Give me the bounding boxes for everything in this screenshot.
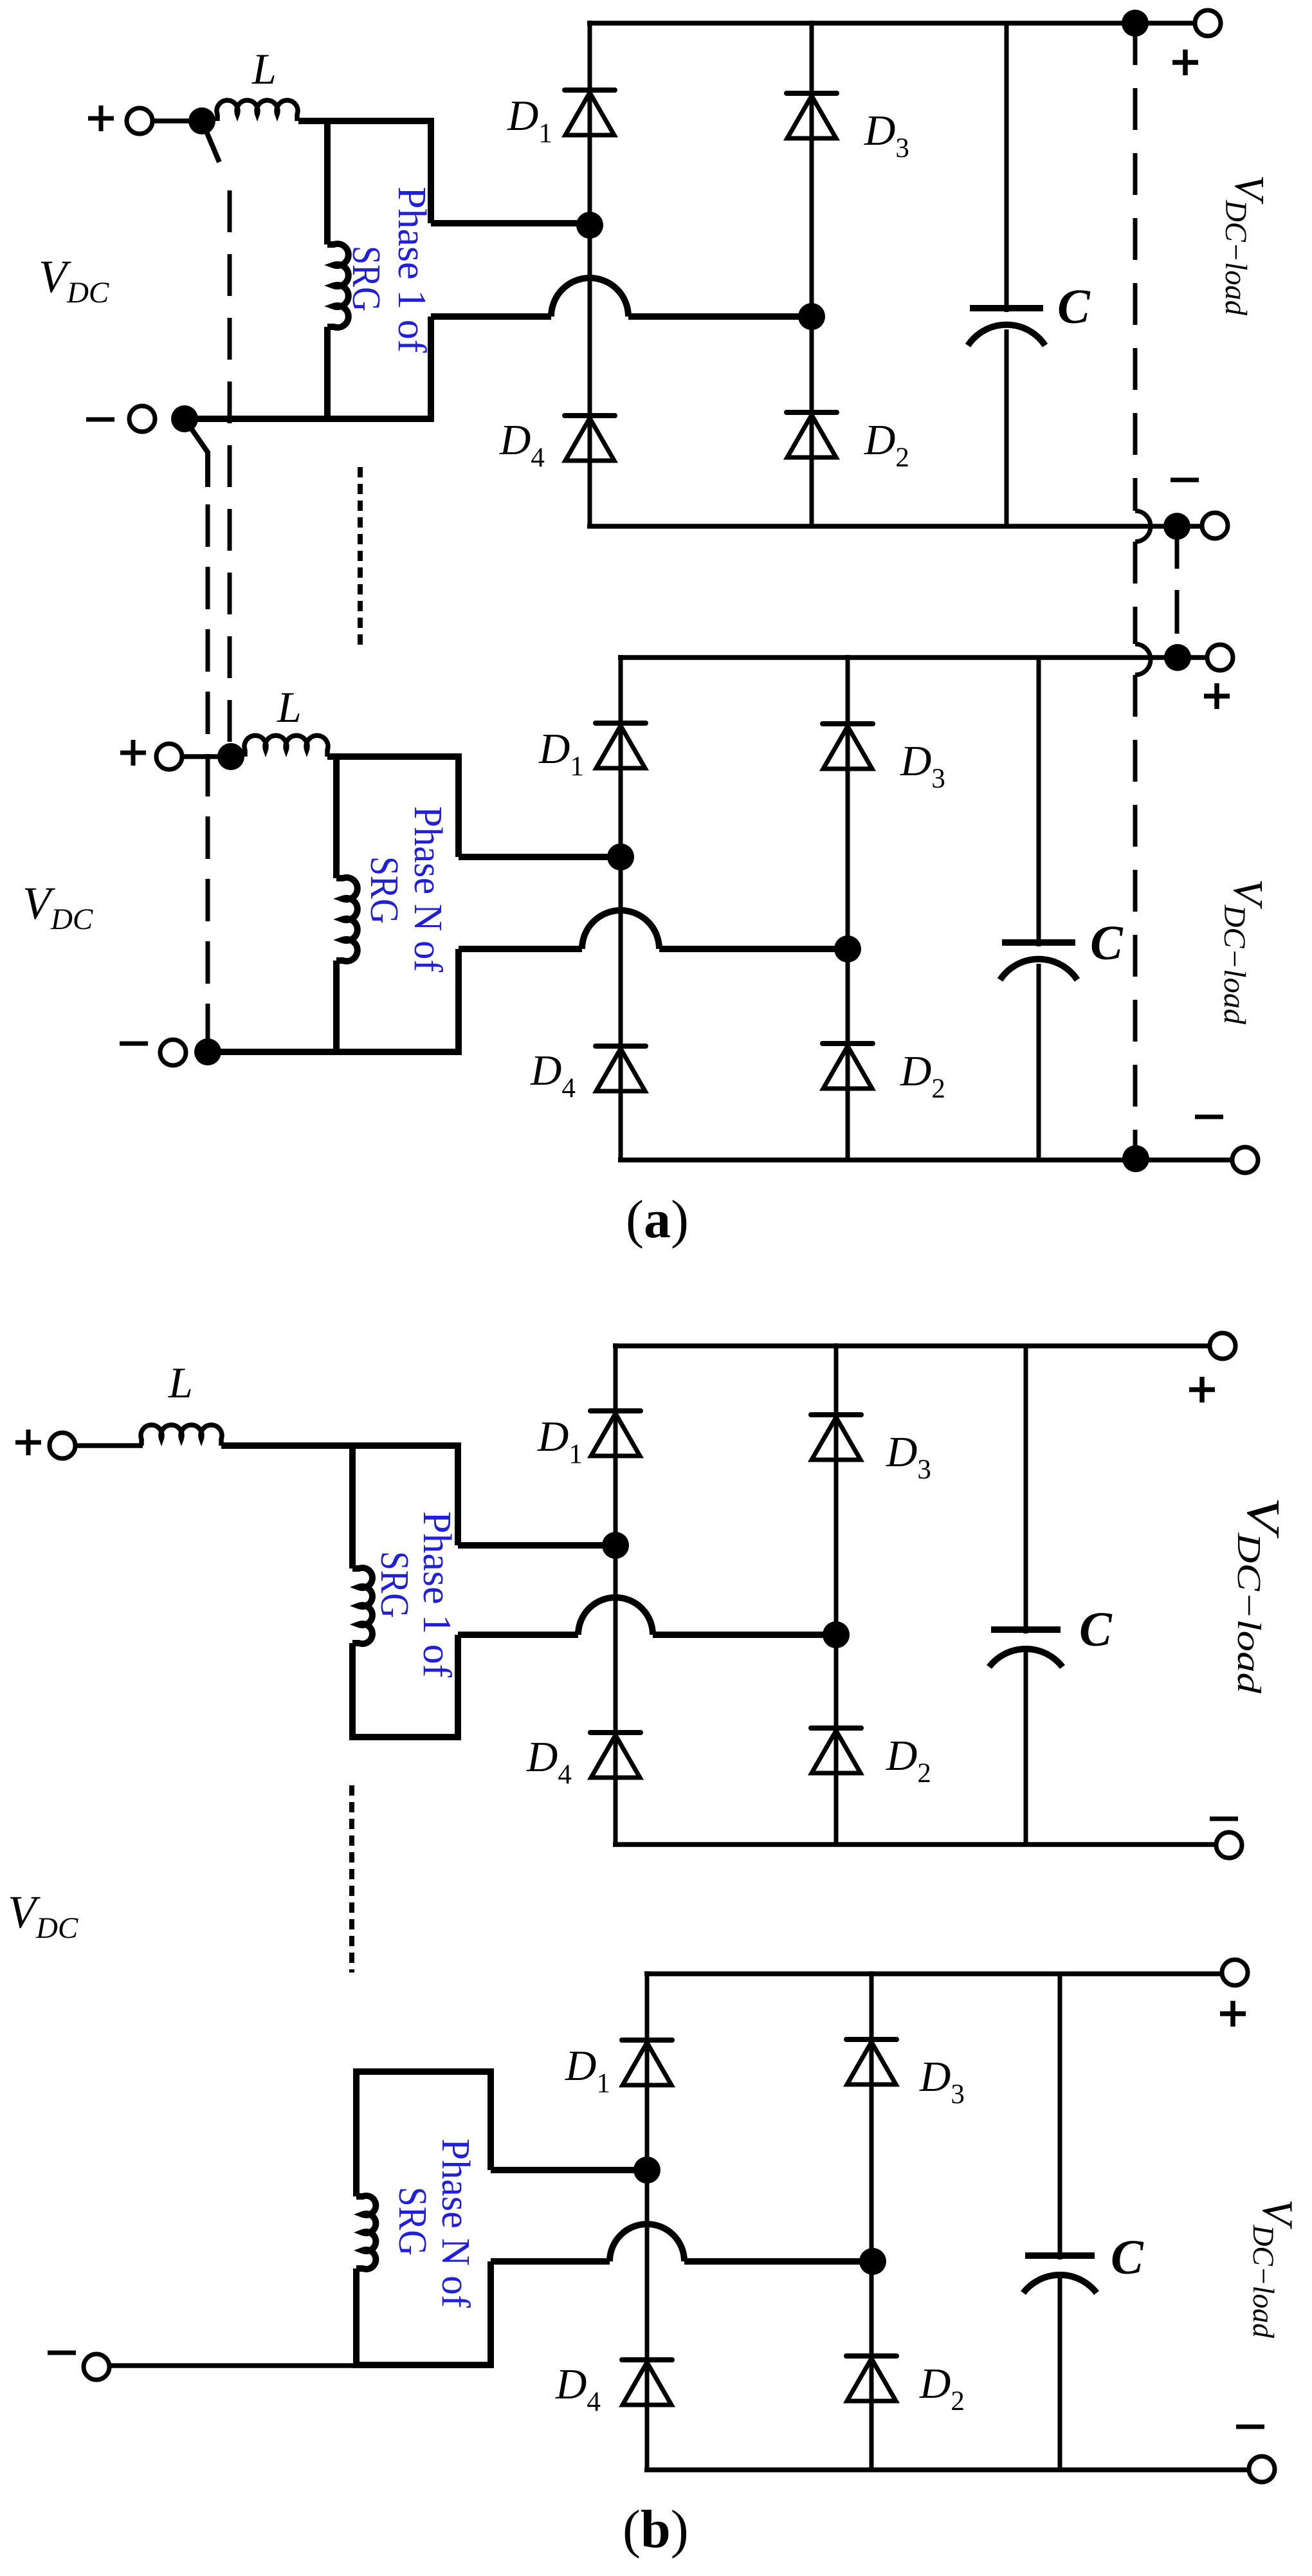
right side upper of block (fig b phaseN): [487, 2068, 494, 2170]
svg-text:D1: D1: [507, 92, 552, 149]
node + input phase 1 (fig a): [188, 107, 215, 134]
plus sign output (fig a phase1): [1172, 50, 1198, 75]
diode D2 (fig b phase1): [811, 1725, 861, 1731]
wire left side lower (fig a phase1): [324, 327, 331, 422]
diode D1 (fig b phase1): [590, 1408, 641, 1413]
lead 2 right part (fig b phase1): [653, 1632, 836, 1638]
lead 2 right part (fig a phaseN): [659, 946, 848, 952]
minus sign output (fig a phaseN): [1195, 1115, 1223, 1119]
plus sign output (fig b phase1): [1189, 1377, 1215, 1403]
dashed wire V_DC- to phase N (fig a): [206, 501, 210, 1046]
terminal + V_DC phase N (fig a): [156, 744, 182, 769]
bridge right leg (fig b phaseN): [870, 1971, 874, 2470]
dashed load wire - to phase N + (fig a): [1175, 538, 1180, 634]
wire hop over bridge left leg (fig a phase1): [551, 278, 628, 317]
output - terminal (fig b phase1): [1216, 1832, 1242, 1858]
junction node lead1/bridge left leg (fig a phase1): [576, 212, 603, 239]
output + node (fig a phase1): [1122, 10, 1149, 37]
bridge right leg (fig b phase1): [834, 1343, 839, 1845]
bottom wire of block to - node (fig a phaseN): [208, 1049, 462, 1055]
svg-text:D3: D3: [886, 1428, 931, 1485]
diode D3 (fig a phase1): [787, 91, 837, 96]
output - terminal (fig b phaseN): [1249, 2456, 1275, 2482]
bottom side of block (fig b phase1): [349, 1734, 461, 1740]
output + terminal (fig b phaseN): [1222, 1960, 1248, 1985]
wire - terminal to block (fig b): [109, 2363, 356, 2368]
right side lower of block (fig b phaseN): [487, 2261, 494, 2368]
SRG phase 1 winding block left upper (fig b): [349, 1446, 356, 1569]
bottom wire of block to - node (fig a phase1): [185, 416, 434, 422]
SRG phase 1 winding block (fig a): left+top+bottom: [324, 121, 331, 244]
diode D3 (fig a phaseN): [823, 721, 873, 726]
bridge left leg (fig b phase1): [614, 1343, 618, 1845]
svg-text:D3: D3: [900, 737, 945, 794]
svg-text:D1: D1: [537, 1413, 583, 1469]
diode D2 (fig a phaseN): [823, 1041, 873, 1046]
wire left side lower (fig b phase1): [349, 1643, 356, 1740]
svg-text:D2: D2: [886, 1732, 931, 1789]
svg-text:(b): (b): [623, 2499, 689, 2559]
svg-text:D4: D4: [499, 416, 545, 473]
svg-text:C: C: [1079, 1603, 1113, 1657]
dashed load wire + (fig a) upper part: [1133, 23, 1138, 511]
minus sign V_DC input (fig b): [48, 2351, 76, 2355]
svg-text:VDC−load: VDC−load: [1246, 2199, 1302, 2338]
diode D4 (fig b phaseN): [622, 2357, 672, 2362]
svg-text:C: C: [1057, 280, 1091, 334]
switch blade from + node (fig a): [202, 121, 219, 162]
terminal - V_DC (fig b): [84, 2354, 109, 2380]
wire hop over bridge left leg (fig b phaseN): [610, 2224, 684, 2261]
capacitor C (fig a phase1): [1005, 23, 1009, 312]
junction node lead1/bridge left leg (fig b phase1): [602, 1532, 629, 1559]
left side upper (fig b phaseN): [353, 2068, 360, 2196]
svg-text:SRG: SRG: [390, 2187, 434, 2256]
svg-text:VDC: VDC: [8, 1886, 78, 1945]
lead 2 left part (fig a phaseN): [459, 946, 582, 952]
winding coil of SRG phase 1 (fig a): [327, 244, 349, 327]
diode D2 (fig a phase1): [787, 410, 837, 415]
top rail bridge phaseN (fig b): [644, 1971, 1222, 1976]
right side lower of block (fig b phase1): [455, 1635, 461, 1740]
dashed wire V_DC+ to phase N (fig a): [228, 175, 232, 742]
svg-text:Phase N of: Phase N of: [406, 806, 450, 972]
plus sign V_DC input phase 1 (fig a): [88, 106, 114, 131]
svg-text:D1: D1: [538, 725, 584, 782]
plus sign V_DC input (fig b): [15, 1430, 41, 1455]
winding coil of SRG phase N (fig a): [336, 878, 358, 961]
winding coil of SRG phase 1 (fig b): [352, 1568, 372, 1644]
output + node (fig a phaseN): [1164, 644, 1191, 671]
SRG phase N winding block top (fig b): [353, 2068, 494, 2075]
svg-text:D2: D2: [900, 1047, 945, 1104]
plus sign output (fig b phaseN): [1220, 2001, 1246, 2027]
minus sign output (fig b phaseN): [1236, 2425, 1264, 2429]
lead 2 left part (fig b phaseN): [491, 2258, 610, 2265]
bottom rail bridge phaseN (fig b): [644, 2467, 1249, 2472]
inductor L phase N (fig a): [244, 735, 328, 757]
bridge left leg (fig b phaseN): [645, 1971, 650, 2470]
terminal + V_DC (fig b): [50, 1433, 75, 1458]
diode D3 (fig b phaseN): [846, 2037, 897, 2042]
wire hop over bridge left leg (fig a phaseN): [582, 910, 659, 949]
svg-text:C: C: [1090, 916, 1124, 970]
svg-text:VDC: VDC: [23, 878, 93, 936]
ellipsis dotted line between phases (fig b): [349, 1785, 354, 1973]
junction node lead2/bridge right leg (fig b phase1): [823, 1621, 850, 1648]
lead 1 phaseN to bridge (fig a): [459, 854, 621, 860]
diode D1 (fig b phaseN): [622, 2038, 672, 2043]
minus sign V_DC input phase N (fig a): [120, 1042, 148, 1046]
svg-text:L: L: [277, 683, 302, 731]
bottom rail bridge phaseN (fig a): [618, 1157, 1232, 1163]
diode D4 (fig a phaseN): [596, 1044, 646, 1049]
svg-text:D2: D2: [864, 416, 909, 473]
output - terminal (fig a phaseN): [1232, 1147, 1258, 1173]
svg-text:L: L: [168, 1358, 193, 1407]
svg-text:Phase N of: Phase N of: [433, 2139, 477, 2308]
right side upper of block (fig a phase1): [428, 118, 434, 223]
svg-text:D3: D3: [919, 2053, 965, 2110]
junction node lead2/bridge right leg (fig a phaseN): [834, 935, 861, 962]
wire hop over bridge left leg (fig b phase1): [578, 1597, 653, 1635]
svg-text:Phase 1 of: Phase 1 of: [415, 1511, 459, 1678]
svg-text:D1: D1: [565, 2042, 610, 2099]
diode D2 (fig b phaseN): [846, 2353, 897, 2359]
svg-text:D4: D4: [555, 2360, 601, 2417]
svg-text:D4: D4: [530, 1047, 576, 1103]
minus sign output (fig b phase1): [1210, 1817, 1238, 1821]
plus sign V_DC input phase N (fig a): [120, 740, 146, 766]
svg-text:D2: D2: [919, 2360, 965, 2416]
junction node lead1/bridge left leg (fig b phaseN): [633, 2157, 661, 2184]
top rail bridge phaseN (fig a): [618, 655, 1207, 660]
svg-text:Phase 1 of: Phase 1 of: [390, 187, 433, 353]
svg-text:VDC: VDC: [39, 251, 109, 309]
svg-text:VDC−load: VDC−load: [1217, 879, 1271, 1025]
diode D1 (fig a phaseN): [596, 721, 646, 726]
diode D4 (fig b phase1): [590, 1730, 641, 1735]
wire + terminal to L (fig b): [75, 1443, 143, 1448]
svg-text:SRG: SRG: [362, 856, 406, 924]
bottom rail bridge phase1 (fig a): [587, 524, 1202, 529]
wire L to SRG block (fig a phaseN): [327, 753, 462, 760]
wire left side lower (fig b phaseN): [353, 2268, 360, 2368]
svg-text:D3: D3: [864, 107, 909, 163]
right side lower of block (fig a phase1): [428, 317, 434, 422]
lead 2 left part (fig a phase1): [431, 313, 551, 320]
wire left side lower (fig a phaseN): [333, 961, 340, 1055]
capacitor C (fig a phaseN): [1037, 658, 1041, 946]
junction node lead2/bridge right leg (fig b phaseN): [859, 2248, 886, 2275]
svg-text:SRG: SRG: [344, 246, 388, 311]
svg-text:L: L: [251, 44, 277, 93]
node - input phase 1 (fig a): [171, 405, 198, 432]
wire L to SRG block (fig b phase1): [221, 1442, 461, 1449]
bridge right leg (fig a phaseN): [846, 655, 850, 1160]
wire + terminal to node (fig a phase1): [152, 118, 190, 124]
inductor L (fig b): [141, 1425, 222, 1446]
terminal - V_DC phase 1 (fig a): [129, 406, 155, 432]
svg-text:SRG: SRG: [372, 1551, 416, 1618]
SRG phase N winding block left upper (fig a): [333, 757, 340, 878]
bridge left leg (fig a phase1): [588, 21, 592, 526]
junction node lead2/bridge right leg (fig a phase1): [798, 303, 825, 330]
svg-text:(a): (a): [626, 1190, 689, 1249]
hop of dashed load wire over phase N + rail (fig a): [1135, 644, 1151, 675]
wire L to SRG block (fig a phase1): [298, 118, 434, 124]
node + input phase N (fig a): [217, 743, 244, 770]
hop of dashed load wire over - rail (fig a): [1135, 511, 1151, 542]
node - input phase N (fig a): [194, 1038, 221, 1065]
output - terminal (fig a phase1): [1202, 513, 1228, 538]
output + terminal (fig a phaseN): [1207, 645, 1233, 670]
right side upper of block (fig b phase1): [455, 1442, 461, 1545]
diode D1 (fig a phase1): [565, 87, 615, 93]
winding coil of SRG phase N (fig b): [356, 2196, 376, 2269]
lead 2 right part to D2/D3 junction (fig a phase1): [628, 313, 812, 320]
ellipsis dotted line between phases (fig a): [358, 467, 363, 645]
diode D4 (fig a phase1): [565, 413, 615, 418]
svg-text:D4: D4: [526, 1733, 572, 1790]
right side upper of block (fig a phaseN): [455, 753, 462, 857]
output + terminal (fig a phase1): [1195, 10, 1221, 36]
dashed load wire + (fig a) middle part: [1133, 542, 1138, 644]
bridge right leg (fig a phase1): [810, 21, 814, 526]
output - node (fig a phase1): [1163, 513, 1190, 540]
output - node (fig a phaseN): [1122, 1145, 1149, 1172]
output + terminal (fig b phase1): [1210, 1333, 1235, 1359]
lead 2 right part (fig b phaseN): [684, 2258, 873, 2265]
top rail bridge phase1 (fig b): [613, 1343, 1210, 1348]
lead 2 left part (fig b phase1): [458, 1632, 578, 1638]
inductor L phase 1 (fig a): [217, 100, 298, 121]
lead 1 phaseN to bridge (fig b): [491, 2167, 647, 2173]
minus sign output (fig a phase1): [1171, 478, 1199, 483]
lead 1 phase1 to bridge (fig a): [431, 220, 590, 226]
bottom side of block (fig b phaseN): [353, 2362, 494, 2368]
switch blade from - node (fig a): [185, 419, 208, 487]
terminal + V_DC phase 1 (fig a): [127, 108, 152, 134]
terminal - V_DC phase N (fig a): [160, 1040, 186, 1065]
top rail bridge phase1 (fig a): [587, 21, 1195, 26]
capacitor C (fig b phase1): [1024, 1346, 1028, 1633]
lead 1 phase1 to bridge (fig b): [458, 1542, 615, 1549]
bottom rail bridge phase1 (fig b): [613, 1842, 1216, 1847]
svg-text:C: C: [1111, 2231, 1144, 2285]
right side lower of block (fig a phaseN): [455, 949, 462, 1055]
dashed load wire + (fig a) lower part: [1133, 675, 1138, 1152]
diode D3 (fig b phase1): [811, 1412, 861, 1417]
svg-text:VDC−load: VDC−load: [1230, 1497, 1289, 1694]
junction node lead1/bridge left leg (fig a phaseN): [607, 843, 634, 870]
bridge left leg (fig a phaseN): [619, 655, 623, 1160]
svg-text:VDC−load: VDC−load: [1219, 175, 1273, 316]
wire + terminal to node (fig a phaseN): [182, 754, 219, 759]
plus sign output (fig a phaseN): [1204, 683, 1230, 709]
capacitor C (fig b phaseN): [1058, 1974, 1062, 2259]
minus sign V_DC input phase 1 (fig a): [86, 418, 114, 422]
